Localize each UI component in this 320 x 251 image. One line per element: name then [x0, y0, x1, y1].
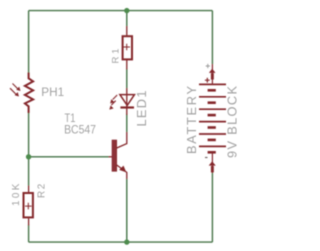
svg-text:9V BLOCK: 9V BLOCK [225, 86, 240, 158]
wire left rail below R2 [28, 225, 30, 242]
wire left rail between PH1 and junction [28, 113, 30, 157]
wire middle R1 to LED1 [126, 69, 128, 88]
resistor R1 box [123, 36, 132, 59]
battery BAT bottom pin arrow [209, 161, 216, 165]
wire left rail junction to R2 [28, 157, 30, 186]
LED1 cathode pin [126, 109, 128, 116]
wire right rail below battery [211, 173, 213, 242]
battery BAT top pin thick stub [211, 73, 214, 79]
svg-text:10K: 10K [11, 183, 22, 206]
svg-text:R2: R2 [36, 184, 47, 198]
resistor R2 origin cross [25, 203, 32, 210]
wire right rail upper to battery [211, 11, 213, 64]
PH1 light arrow 2 [10, 88, 19, 96]
battery BAT bottom pin line [211, 152, 213, 173]
resistor R2 pin top [28, 186, 30, 193]
resistor PH1 photoresistor zigzag [25, 73, 33, 114]
transistor T1 emitter diagonal [117, 165, 127, 179]
resistor R1 pin top [126, 26, 128, 35]
PH1 light arrow 1 [13, 84, 21, 91]
svg-text:LED1: LED1 [134, 91, 149, 127]
transistor T1 base bar [112, 140, 117, 171]
wire middle LED1 to T1 collector [126, 114, 128, 132]
resistor R2 pin bottom [28, 218, 30, 225]
wire middle T1 emitter to bottom net [126, 179, 128, 242]
LED1 triangle [120, 95, 135, 106]
battery BAT cell plates [199, 84, 226, 152]
wire middle branch top to R1 [126, 11, 128, 26]
resistor R1 pin bottom [126, 60, 128, 70]
transistor T1 emitter arrow head [120, 166, 126, 172]
battery BAT negative terminal gray minus [205, 157, 208, 159]
transistor T1 collector diagonal [117, 132, 127, 148]
wire left rail upper segment [28, 11, 30, 73]
transistor T1 base pin stub [109, 156, 113, 158]
resistor R1 origin cross [123, 44, 130, 51]
LED1 emitted light arrow 2 [110, 101, 116, 110]
svg-text:BATTERY: BATTERY [184, 86, 199, 154]
battery BAT top pin line [211, 64, 213, 84]
resistor R2 box [24, 193, 33, 217]
battery BAT top pin arrow [209, 69, 216, 73]
LED1 cathode bar [120, 106, 134, 108]
wire top net from left rail to right rail [29, 10, 213, 12]
svg-text:R1: R1 [111, 48, 122, 63]
junction left at base net [26, 154, 31, 159]
wire bottom net [29, 241, 213, 243]
battery BAT positive terminal gray plus [206, 64, 210, 68]
battery BAT polarity plus mark [205, 78, 210, 83]
svg-text:PH1: PH1 [41, 85, 64, 99]
LED1 anode pin into triangle [126, 88, 128, 107]
LED1 emitted light arrow 1 [110, 95, 117, 103]
junction top at middle branch [124, 8, 129, 13]
wire base net from left junction to T1 base [29, 156, 109, 158]
battery BAT bottom pin thick stub [211, 166, 214, 172]
svg-text:BC547: BC547 [64, 123, 96, 137]
junction bottom at emitter net [124, 239, 129, 244]
